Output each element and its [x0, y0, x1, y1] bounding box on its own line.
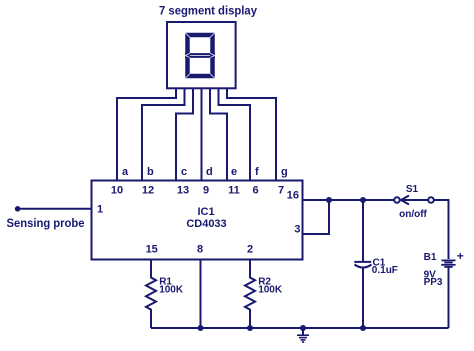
svg-text:+: + [457, 249, 464, 263]
svg-text:3: 3 [294, 224, 300, 236]
svg-text:a: a [122, 166, 129, 178]
capacitor C1 bottom curved plate [355, 265, 372, 268]
svg-text:15: 15 [146, 244, 158, 256]
ground symbol [297, 335, 309, 342]
wire segment b: display to IC pin 12 [142, 88, 185, 181]
switch S1 right contact [428, 197, 434, 203]
svg-text:9: 9 [203, 185, 209, 197]
sensing probe tip node [15, 206, 21, 212]
svg-text:100K: 100K [159, 285, 184, 296]
svg-text:12: 12 [142, 185, 154, 197]
resistor R1 with wires to IC pin 15 and rail [146, 260, 156, 328]
wire: switch S1 to battery B1 positive [434, 200, 449, 259]
7 segment digit 8 [188, 35, 213, 76]
svg-text:11: 11 [228, 185, 240, 197]
svg-text:6: 6 [252, 185, 258, 197]
svg-text:0.1uF: 0.1uF [372, 265, 398, 276]
junction: pin 8 wire on ground rail [198, 325, 204, 331]
junction: C1 on ground rail [360, 325, 366, 331]
capacitor C1 top plate [354, 261, 371, 263]
wire segment g: display to IC pin 7 [227, 88, 276, 181]
segment bevel seams [185, 33, 214, 78]
svg-text:g: g [281, 166, 288, 178]
svg-text:b: b [147, 166, 154, 178]
svg-text:1: 1 [97, 204, 103, 216]
svg-text:f: f [255, 166, 259, 178]
wire: IC pin 3 loop to pin 16 rail [303, 200, 330, 234]
wire: capacitor C1 bottom to rail [362, 268, 364, 329]
wire: bottom ground rail [151, 327, 449, 329]
junction: C1 branch on positive rail [360, 197, 366, 203]
svg-text:e: e [231, 166, 237, 178]
op-amp style IC body: IC1 CD4033 [92, 181, 303, 260]
wire segment f: display to IC pin 6 [219, 88, 251, 181]
wire: rail junction to capacitor C1 top [362, 200, 364, 261]
svg-text:10: 10 [111, 185, 123, 197]
switch S1 lever arrow [403, 199, 428, 201]
resistor R2 with wires to IC pin 2 and rail [245, 260, 255, 328]
svg-text:7 segment display: 7 segment display [159, 4, 257, 18]
svg-text:IC1: IC1 [197, 206, 214, 218]
svg-text:Sensing probe: Sensing probe [7, 218, 85, 230]
wire segment d: display to IC pin 9 [201, 88, 203, 181]
svg-text:CD4033: CD4033 [186, 218, 226, 230]
wire: sensing probe to IC pin 1 [18, 208, 92, 210]
svg-text:13: 13 [177, 185, 189, 197]
switch S1 left contact [394, 197, 400, 203]
wire: IC pin 8 to bottom rail [200, 260, 202, 328]
svg-text:16: 16 [287, 190, 299, 202]
wire: IC pin 16 to switch S1 (positive rail) [303, 199, 395, 201]
svg-text:8: 8 [197, 244, 203, 256]
svg-text:S1: S1 [406, 184, 419, 195]
7 segment display DIS1 body [167, 22, 236, 88]
junction: R2 on ground rail [247, 325, 253, 331]
wire segment c: display to IC pin 13 [176, 88, 193, 181]
wire segment e: display to IC pin 11 [210, 88, 227, 181]
junction: pin3 loop on positive rail [326, 197, 332, 203]
ground stub [302, 328, 304, 335]
svg-text:on/off: on/off [399, 209, 427, 220]
svg-text:B1: B1 [424, 252, 437, 263]
battery B1 plates [441, 260, 455, 267]
svg-text:7: 7 [278, 185, 284, 197]
svg-text:d: d [206, 166, 213, 178]
svg-text:PP3: PP3 [424, 277, 443, 288]
svg-text:100K: 100K [258, 285, 283, 296]
wire segment a: display to IC pin 10 [117, 88, 176, 181]
svg-text:2: 2 [247, 244, 253, 256]
wire: battery B1 negative to bottom rail [448, 268, 450, 329]
svg-text:c: c [181, 166, 187, 178]
junction: ground symbol on rail [300, 325, 306, 331]
